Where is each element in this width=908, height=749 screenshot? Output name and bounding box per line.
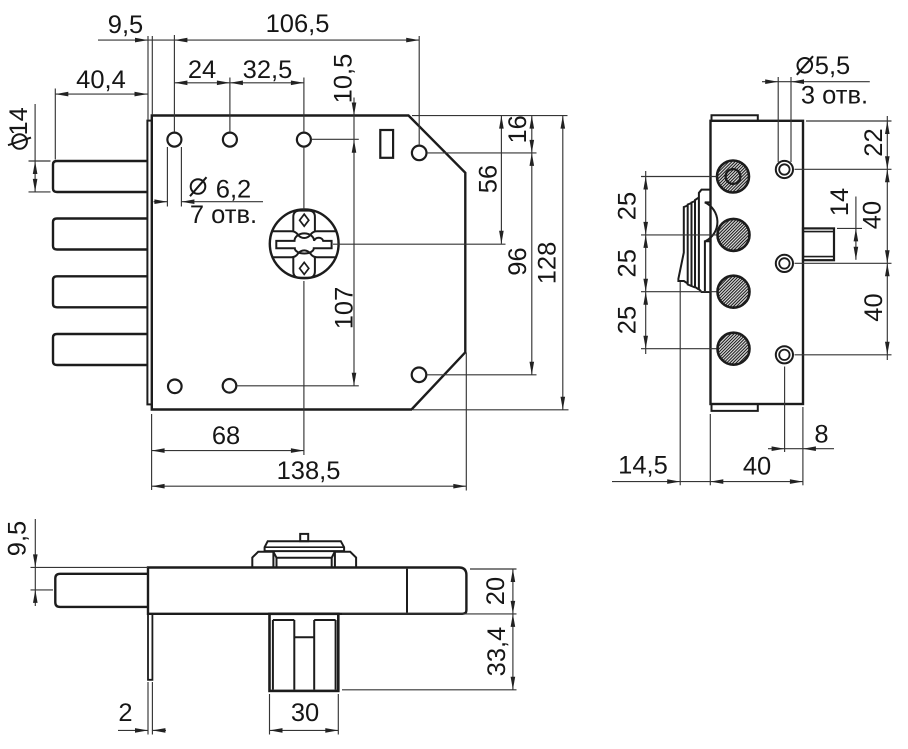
mounting hole H3 top row xyxy=(297,133,311,147)
svg-text:22: 22 xyxy=(860,128,888,156)
keyhole chord upper with wave xyxy=(272,231,336,238)
svg-text:33,4: 33,4 xyxy=(483,627,511,677)
cylinder stem bottom view xyxy=(300,534,308,541)
svg-text:40: 40 xyxy=(858,201,886,229)
svg-text:14: 14 xyxy=(5,107,33,135)
dim 96 right side xyxy=(427,374,537,376)
lock body front view outline xyxy=(152,116,466,410)
cylinder profile plate 1 xyxy=(699,190,711,292)
dim 68 bottom xyxy=(151,414,153,490)
svg-text:68: 68 xyxy=(212,422,240,450)
faceplate strip bottom view xyxy=(148,614,152,680)
svg-text:128: 128 xyxy=(534,242,562,285)
key slot profile xyxy=(276,233,331,253)
dim 9,5 bolt axis xyxy=(31,566,149,568)
svg-text:14: 14 xyxy=(826,188,854,216)
mounting hole H4 top right xyxy=(412,146,427,161)
rectangular slot near top right xyxy=(380,130,393,158)
cylinder cam side view xyxy=(678,206,687,284)
lock case inner walls xyxy=(273,619,294,621)
svg-text:20: 20 xyxy=(482,577,510,605)
svg-text:16: 16 xyxy=(504,115,532,143)
cylinder cap bar bottom view xyxy=(265,541,345,551)
keyhole bottom tab xyxy=(293,257,315,278)
cylinder ear right bottom view xyxy=(335,552,356,568)
lock case bottom view outer xyxy=(270,614,339,691)
mounting hole H7 bottom left xyxy=(223,379,237,393)
screw hole S1 side view xyxy=(776,161,793,178)
bolt circle section C4 xyxy=(718,333,750,365)
bolt B4 front xyxy=(53,334,148,365)
dim 40,4 bolt length xyxy=(55,93,147,95)
lock body side view outline xyxy=(711,121,804,404)
dim 107 vertical xyxy=(237,385,359,387)
latch tab side view right xyxy=(803,228,834,260)
mounting hole H5 bottom right xyxy=(412,368,427,383)
faceplate front view xyxy=(147,121,152,405)
dim 16 right side xyxy=(412,115,568,117)
cylinder neck bottom view xyxy=(273,552,334,558)
cylinder ear left bottom view xyxy=(252,552,273,568)
cylinder keyhole circle xyxy=(270,209,339,278)
dim 30 case width xyxy=(270,729,339,731)
svg-text:5,5: 5,5 xyxy=(815,52,850,80)
svg-text:24: 24 xyxy=(188,56,216,84)
dim 10,5 vertical xyxy=(353,98,355,386)
cylinder block bottom view xyxy=(276,558,278,568)
keyhole diamond lower xyxy=(300,262,309,274)
svg-text:2: 2 xyxy=(118,699,132,727)
bolt B2 front xyxy=(53,219,148,250)
dim 14,5 bottom xyxy=(612,481,803,483)
lock body bottom view outline xyxy=(148,568,466,614)
dim 138,5 bottom xyxy=(465,353,467,491)
bolt B3 front xyxy=(53,276,148,307)
lock case center slot xyxy=(294,636,314,638)
svg-text:10,5: 10,5 xyxy=(329,54,357,104)
faceplate lip bottom side view xyxy=(712,404,758,411)
dim 24 hole spacing xyxy=(174,82,304,84)
bolt circle section C1 with pin xyxy=(717,161,749,193)
dim 9,5 top left xyxy=(98,39,419,41)
body divider line bottom view xyxy=(406,569,408,613)
faceplate lip top side view xyxy=(712,115,758,121)
bolt B1 front xyxy=(53,161,148,192)
cylinder profile plate 3 xyxy=(692,201,696,288)
screw hole S2 side view xyxy=(776,255,793,272)
mounting hole H6 bottom left xyxy=(168,380,182,394)
dim 2 faceplate thickness xyxy=(118,729,148,731)
dim 56 right side xyxy=(333,243,506,245)
svg-text:96: 96 xyxy=(504,247,532,275)
dim diameter 5,5 top xyxy=(762,81,870,83)
svg-text:8: 8 xyxy=(814,420,828,448)
bolt circle section C3 xyxy=(718,276,750,308)
svg-text:6,2: 6,2 xyxy=(216,175,251,203)
mounting hole H2 top row xyxy=(223,133,237,147)
dim 40 upper right side xyxy=(795,262,892,264)
dim 33,4 case height xyxy=(342,689,517,691)
keyhole diamond upper xyxy=(300,214,309,226)
mounting hole H1 top row xyxy=(167,133,181,147)
screw hole S3 side view xyxy=(776,346,793,363)
svg-text:138,5: 138,5 xyxy=(277,457,341,485)
dim 22 right side xyxy=(806,120,892,122)
cylinder profile plate 2 xyxy=(695,198,699,290)
svg-text:40,4: 40,4 xyxy=(76,66,126,94)
bolt circle section C2 xyxy=(718,219,750,251)
dim 8 bottom right xyxy=(768,448,834,450)
keyhole top tab xyxy=(293,211,315,232)
dim diameter 14 bolt xyxy=(29,160,51,162)
svg-text:40: 40 xyxy=(743,452,771,480)
svg-text:25: 25 xyxy=(614,249,642,277)
svg-text:9,5: 9,5 xyxy=(3,521,31,556)
svg-text:32,5: 32,5 xyxy=(243,56,293,84)
svg-text:56: 56 xyxy=(474,165,502,193)
dim 40 lower right side xyxy=(795,354,892,356)
svg-text:25: 25 xyxy=(614,306,642,334)
cylinder round body profile side view xyxy=(705,202,718,291)
dim 25 chain left side xyxy=(645,171,647,354)
keyhole chord lower with wave xyxy=(273,250,336,257)
bolt bottom view xyxy=(55,574,148,607)
svg-text:106,5: 106,5 xyxy=(266,10,330,38)
svg-text:9,5: 9,5 xyxy=(108,11,143,39)
svg-text:40: 40 xyxy=(860,293,888,321)
cylinder profile plate 4 xyxy=(688,203,692,286)
svg-text:30: 30 xyxy=(291,699,319,727)
dim 14 latch tab xyxy=(837,227,862,229)
svg-text:25: 25 xyxy=(614,192,642,220)
dim diameter 6,2 leader xyxy=(166,147,168,207)
dim 128 right side xyxy=(413,409,569,411)
dim 20 body height bottom view xyxy=(470,568,517,570)
svg-text:7 отв.: 7 отв. xyxy=(190,201,257,229)
svg-text:107: 107 xyxy=(330,287,358,330)
svg-text:14,5: 14,5 xyxy=(618,451,668,479)
svg-text:3 отв.: 3 отв. xyxy=(801,81,868,109)
